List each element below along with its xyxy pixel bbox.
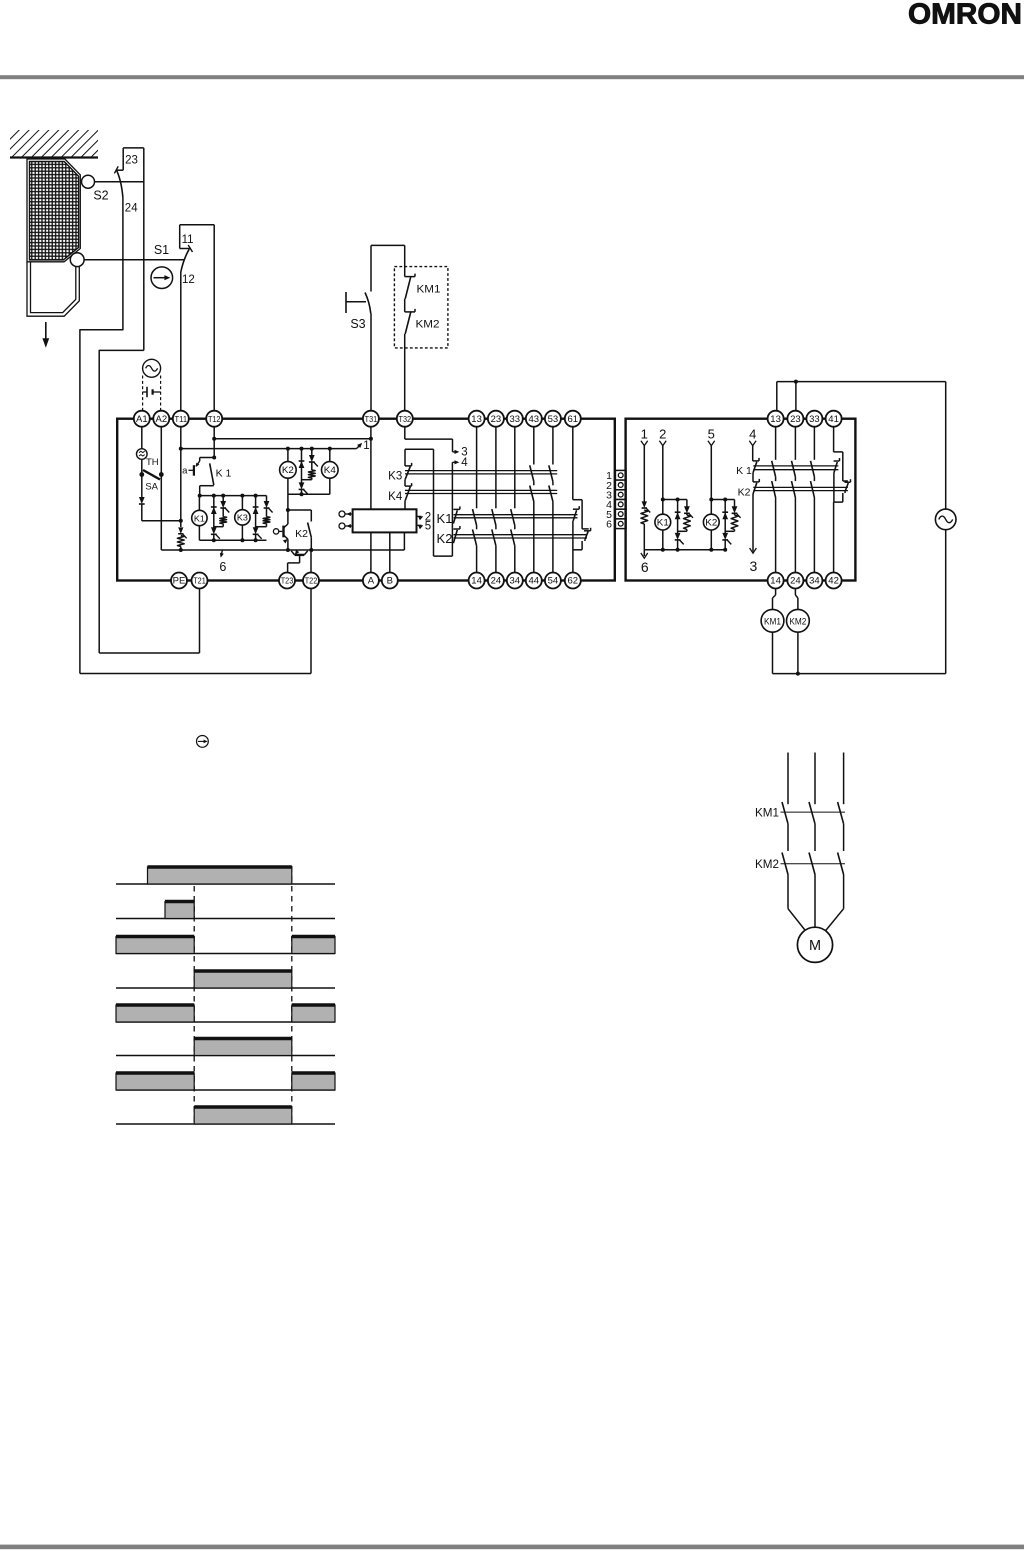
guard door (mesh panel) <box>27 159 80 316</box>
wire T31 to control block <box>370 427 372 510</box>
label K2 (transistor) <box>295 528 308 540</box>
top horizontal rule <box>0 75 1024 79</box>
coil K4 <box>322 449 339 495</box>
svg-text:T32: T32 <box>399 415 412 424</box>
svg-text:K2: K2 <box>282 465 294 475</box>
terminal T31 <box>363 411 379 427</box>
label K3 <box>388 471 402 483</box>
terminal 34 bottom <box>507 573 523 589</box>
svg-text:K3: K3 <box>237 513 248 523</box>
label KM2 <box>416 319 440 331</box>
pin label 23 <box>125 155 138 167</box>
svg-text:T22: T22 <box>305 577 318 586</box>
wire A2 to bottom bus <box>160 427 162 550</box>
contact KM1 (NC) <box>405 267 415 299</box>
three phase lines <box>788 753 844 805</box>
wire A1 chain to T11 line <box>142 519 183 523</box>
test point 4 <box>452 460 459 464</box>
svg-text:T23: T23 <box>281 577 294 586</box>
timing row 5 baseline <box>116 1021 335 1023</box>
phase segments between contactors <box>788 824 844 851</box>
wire S3 bracket <box>371 245 405 291</box>
wire S2-24 return to T22 <box>80 198 123 674</box>
svg-text:A: A <box>368 576 375 587</box>
timing row 8 bar 1 <box>194 1107 292 1124</box>
output contact column x=775.6 (expansion) <box>772 427 776 573</box>
svg-text:5: 5 <box>425 521 431 533</box>
wire bottom return to T21 <box>99 589 199 654</box>
svg-text:42: 42 <box>828 576 839 587</box>
output contact column x=795.4 (expansion) <box>792 427 796 573</box>
thermal element TH <box>137 449 148 460</box>
label S1 <box>154 243 169 257</box>
switch SA <box>139 470 163 480</box>
contact KM2 (NC) <box>405 299 415 334</box>
svg-text:A1: A1 <box>136 414 148 425</box>
svg-text:23: 23 <box>491 414 502 425</box>
timing row 3 bar 1 <box>116 937 194 954</box>
svg-text:2: 2 <box>659 427 666 442</box>
timing row 1 baseline <box>116 883 335 885</box>
svg-text:K4: K4 <box>324 465 336 475</box>
svg-text:K2: K2 <box>738 487 751 499</box>
linkage row K2 (double line) <box>454 535 588 538</box>
test point 2 (expansion) <box>659 427 666 446</box>
svg-text:62: 62 <box>568 576 579 587</box>
label S3 <box>350 317 365 331</box>
terminal 62 bottom <box>565 573 581 589</box>
wire T12 vertical <box>212 427 216 460</box>
wire TH to SA <box>141 459 143 474</box>
terminal T23 bottom <box>279 573 295 589</box>
svg-text:A2: A2 <box>155 414 167 425</box>
terminal 42 (expansion bottom) <box>826 573 842 589</box>
output contact column x=552.9 (NO contacts K3,K4) <box>549 427 553 573</box>
terminal 14 (expansion bottom) <box>768 573 784 589</box>
coil K3 <box>235 496 250 541</box>
wire control block to bottom bus <box>403 532 405 550</box>
timing diagram dashed line t2 <box>291 866 293 1124</box>
zener + resistor column 2 <box>256 496 273 527</box>
label KM2 (contactor) <box>755 859 779 871</box>
suppressor bus lower (K1/K3) <box>199 538 266 542</box>
supply bus bottom <box>773 673 946 675</box>
zener + resistor column <box>214 496 229 527</box>
svg-text:34: 34 <box>510 576 521 587</box>
svg-text:23: 23 <box>790 414 801 425</box>
wire T11 vertical <box>180 427 182 527</box>
timing row 2 bar 1 <box>165 902 194 919</box>
wire bracket to contact chain <box>405 449 434 466</box>
test point label 4 <box>461 457 468 469</box>
test point label 1 <box>363 440 369 452</box>
diode column (exp K2) <box>722 500 731 552</box>
terminal T12 <box>206 411 222 427</box>
dashed leads to A1/A2 <box>143 376 161 412</box>
label K1 <box>216 467 232 479</box>
svg-text:14: 14 <box>471 576 482 587</box>
coil K1 (expansion) <box>655 446 687 552</box>
timing diagram dashed line t1 <box>193 866 195 1124</box>
wire test point 1 column <box>641 446 650 550</box>
terminal PE bottom <box>171 573 187 589</box>
svg-text:24: 24 <box>790 576 801 587</box>
timing row 2 baseline <box>116 918 335 920</box>
label K1 row <box>437 511 453 526</box>
label K1 (expansion rows) <box>736 465 752 477</box>
svg-text:KM1: KM1 <box>755 808 779 820</box>
diode pair column 2 <box>253 496 262 541</box>
svg-text:6: 6 <box>641 559 649 575</box>
relay unit main box <box>117 419 615 581</box>
wire KM2 to T32 <box>404 334 406 411</box>
wire control block to A <box>370 532 372 572</box>
bottom internal bus <box>161 548 404 552</box>
svg-text:61: 61 <box>568 414 579 425</box>
svg-text:12: 12 <box>182 274 195 286</box>
wire S3 to T31 <box>370 314 372 412</box>
contactor KM1 contacts <box>781 802 846 824</box>
machine frame (hatched wall) <box>10 130 98 158</box>
output contact column x=495.9 (NO contacts K1,K2) <box>492 427 496 573</box>
terminal 61 <box>565 411 581 427</box>
timing row 6 bar 1 <box>194 1039 292 1056</box>
S1 actuator line <box>84 259 184 261</box>
legend: direct opening symbol <box>197 736 209 748</box>
door motion arrow <box>42 322 49 348</box>
terminal 33 (expansion) <box>806 411 822 427</box>
svg-text:a: a <box>182 466 188 477</box>
timing row 3 bar 2 <box>292 937 335 954</box>
coil K2 <box>280 449 297 495</box>
terminal 43 <box>526 411 542 427</box>
zener column (exp K2) <box>725 500 740 532</box>
NC contact 41-42 (expansion) <box>834 427 851 573</box>
wire T32 with test point 3 <box>405 427 460 454</box>
svg-text:44: 44 <box>529 576 540 587</box>
label K2 (expansion rows) <box>738 487 751 499</box>
svg-text:K2: K2 <box>295 528 308 540</box>
terminal 53 <box>545 411 561 427</box>
svg-text:34: 34 <box>809 576 820 587</box>
wire S1 bracket <box>180 225 215 411</box>
svg-text:K2: K2 <box>437 531 453 546</box>
label S2 <box>93 189 108 203</box>
test point 5 <box>417 521 432 533</box>
diode column (exp K1) <box>675 500 684 552</box>
contact K1 blade <box>210 463 214 485</box>
svg-text:T21: T21 <box>193 577 206 586</box>
input b <box>339 523 353 529</box>
svg-text:11: 11 <box>182 234 194 246</box>
linkage frame <box>434 449 453 556</box>
suppressor bus upper (K1/K3) <box>200 494 267 498</box>
wire S2-23 return to T21 <box>99 350 144 653</box>
linkage row K1 (double line) <box>454 515 578 518</box>
coil K1 <box>192 496 207 541</box>
row K2 left indicator <box>453 526 460 543</box>
terminal 14 bottom <box>469 573 485 589</box>
transistor Q3 (T23 output) <box>288 550 308 573</box>
label K2 row <box>437 531 453 546</box>
timing row 3 baseline <box>116 953 335 955</box>
contact K4 <box>405 483 412 509</box>
wire bus from T11 with test point 1 <box>179 443 362 451</box>
timing row 4 baseline <box>116 987 335 989</box>
svg-text:23: 23 <box>125 155 138 167</box>
terminal T32 <box>397 411 413 427</box>
svg-text:5: 5 <box>708 427 715 442</box>
linkage row K1 (expansion) <box>753 466 838 470</box>
test chain 4-3 (expansion) <box>750 446 760 574</box>
svg-text:T31: T31 <box>365 415 378 424</box>
pushbutton S3 <box>346 292 371 314</box>
timing row 4 bar 1 <box>194 971 292 988</box>
svg-text:K2: K2 <box>705 517 717 527</box>
zener column (exp K1) <box>678 500 693 532</box>
test point 6 (expansion) <box>641 550 649 575</box>
label TH <box>146 457 159 468</box>
suppressor bus dots on T11 bus <box>286 447 332 451</box>
terminal 13 (expansion) <box>768 411 784 427</box>
svg-text:41: 41 <box>828 414 839 425</box>
timing row 7 baseline <box>116 1089 335 1091</box>
terminal 33 <box>507 411 523 427</box>
terminal 13 <box>469 411 485 427</box>
NC contact 61-62 <box>573 427 591 573</box>
svg-text:K 1: K 1 <box>216 467 232 479</box>
test point label 3 <box>461 447 467 459</box>
relay K1 feedback contact <box>182 458 214 477</box>
terminal A2 <box>153 411 169 427</box>
feedback box (dashed) <box>394 267 448 348</box>
svg-text:T12: T12 <box>208 415 221 424</box>
zener + resistor column (K2/K4 net) <box>302 449 318 480</box>
terminal 23 (expansion) <box>787 411 803 427</box>
svg-text:K 1: K 1 <box>736 465 752 477</box>
svg-text:K3: K3 <box>388 471 402 483</box>
transistor Q2 (K2 driver) <box>273 510 290 552</box>
svg-text:43: 43 <box>529 414 540 425</box>
output contact column x=476.6 (NO contacts K1,K2) <box>473 427 477 573</box>
timing row 6 baseline <box>116 1055 335 1057</box>
svg-text:14: 14 <box>770 576 781 587</box>
test point 1 (expansion) <box>641 427 648 446</box>
svg-text:24: 24 <box>125 203 138 215</box>
linkage row K4 (double line) <box>405 490 557 493</box>
AC supply symbol <box>143 359 161 377</box>
timing row 7 bar 1 <box>116 1073 194 1090</box>
terminal 24 bottom <box>488 573 504 589</box>
svg-text:PE: PE <box>173 576 186 587</box>
svg-text:6: 6 <box>606 519 612 531</box>
coil KM1 <box>761 589 784 674</box>
expansion unit box <box>626 419 856 581</box>
row K1 left indicator <box>453 506 460 523</box>
svg-text:24: 24 <box>491 576 502 587</box>
terminal 24 (expansion bottom) <box>787 573 803 589</box>
bottom horizontal rule <box>0 1545 1024 1550</box>
pin label 24 <box>125 203 138 215</box>
terminal A1 <box>134 411 150 427</box>
svg-text:KM2: KM2 <box>416 319 440 331</box>
roller upper (S2 actuator) <box>82 175 95 188</box>
timing row 1 bar 1 <box>148 867 292 884</box>
svg-text:K1: K1 <box>657 517 669 527</box>
output contact column x=814.4 (expansion) <box>811 427 815 573</box>
svg-text:TH: TH <box>146 457 159 468</box>
wire K1 contact lower step <box>198 486 214 498</box>
timing row 7 bar 2 <box>292 1073 335 1090</box>
test point 6 <box>219 550 226 574</box>
linkage row K3 (double line) <box>405 471 557 474</box>
test point 4 (expansion) <box>749 427 756 446</box>
terminal T11 <box>173 411 189 427</box>
linkage row K2 (expansion) <box>753 487 848 490</box>
svg-text:54: 54 <box>548 576 559 587</box>
pin label 11 <box>182 234 194 246</box>
svg-text:13: 13 <box>770 414 781 425</box>
svg-text:3: 3 <box>750 558 758 574</box>
contact K2 check blade <box>308 510 314 552</box>
svg-text:T11: T11 <box>175 415 188 424</box>
svg-text:S1: S1 <box>154 243 169 257</box>
control block box <box>353 509 417 532</box>
svg-text:KM1: KM1 <box>417 284 441 296</box>
diode pair column (K2/K4 net) <box>299 449 308 495</box>
svg-text:13: 13 <box>471 414 482 425</box>
coil KM2 <box>787 589 810 676</box>
svg-text:33: 33 <box>809 414 820 425</box>
label KM1 <box>417 284 441 296</box>
diode on A1 chain <box>139 475 145 521</box>
svg-text:SA: SA <box>145 482 158 493</box>
svg-text:OMRON: OMRON <box>908 0 1022 30</box>
test point 2 <box>417 512 432 524</box>
timing row 5 bar 2 <box>292 1005 335 1022</box>
interconnect terminals 1-6 <box>606 470 626 531</box>
wire roller to S2 <box>94 181 143 183</box>
svg-text:4: 4 <box>461 457 468 469</box>
wire bus T12 to T31 <box>212 437 373 441</box>
pin label 12 <box>182 274 195 286</box>
output contact column x=514.8 (NO contacts K1,K2) <box>511 427 515 573</box>
terminal T21 bottom <box>192 573 208 589</box>
terminal 41 (expansion) <box>826 411 842 427</box>
svg-text:KM2: KM2 <box>755 859 779 871</box>
timing row 5 bar 1 <box>116 1005 194 1022</box>
label K4 <box>388 491 403 503</box>
input a <box>339 511 353 517</box>
wire S2 bracket <box>123 148 144 351</box>
wire bottom return to T22 <box>80 589 311 674</box>
label KM1 (contactor) <box>755 808 779 820</box>
wire control block to B <box>389 532 391 572</box>
roller lower (S1 actuator) <box>70 253 84 267</box>
wire S1 to T11 <box>180 272 182 411</box>
wire T22 riser <box>310 550 312 573</box>
svg-text:K1: K1 <box>194 513 205 523</box>
terminal A bottom <box>363 573 379 589</box>
supply bus top (to expansion) <box>777 380 946 412</box>
terminal B bottom <box>382 573 398 589</box>
OMRON logo <box>908 0 1022 30</box>
diode pair column <box>211 496 220 541</box>
wire A1 down <box>141 427 143 449</box>
svg-text:4: 4 <box>749 427 756 442</box>
timing row 8 baseline <box>116 1123 335 1125</box>
label SA <box>145 482 158 493</box>
coil K2 (expansion) <box>703 446 734 552</box>
svg-text:33: 33 <box>510 414 521 425</box>
svg-text:1: 1 <box>641 427 648 442</box>
output contact column x=533.8 (NO contacts K3,K4) <box>530 427 534 573</box>
terminal 54 bottom <box>545 573 561 589</box>
svg-text:S3: S3 <box>350 317 365 331</box>
svg-text:KM1: KM1 <box>764 617 781 627</box>
svg-text:K4: K4 <box>388 491 403 503</box>
terminal 34 (expansion bottom) <box>806 573 822 589</box>
direct opening action symbol at S1 <box>151 267 173 289</box>
terminal 23 <box>488 411 504 427</box>
limit switch S1 contact <box>180 245 193 272</box>
svg-text:1: 1 <box>363 440 369 452</box>
bottom bus (expansion) <box>644 549 725 551</box>
suppressor bus lower (K2/K4) <box>288 492 330 496</box>
svg-text:B: B <box>387 576 393 587</box>
motor M <box>788 875 844 963</box>
svg-text:53: 53 <box>548 414 559 425</box>
terminal T22 bottom <box>303 573 319 589</box>
terminal 44 bottom <box>526 573 542 589</box>
varistor on T11 line <box>177 527 186 550</box>
limit switch S2 contact <box>114 166 123 198</box>
test point 5 (expansion) <box>708 427 715 446</box>
svg-text:S2: S2 <box>93 189 108 203</box>
AC source <box>935 382 956 674</box>
svg-text:K1: K1 <box>437 511 453 526</box>
battery symbol (DC alternative) <box>143 387 161 397</box>
svg-text:KM2: KM2 <box>789 617 806 627</box>
contactor KM2 contacts <box>781 853 846 875</box>
svg-text:6: 6 <box>219 560 226 574</box>
svg-text:M: M <box>809 938 821 954</box>
wire K2 coil to transistor bracket <box>286 494 311 512</box>
contact K3 <box>405 463 412 486</box>
